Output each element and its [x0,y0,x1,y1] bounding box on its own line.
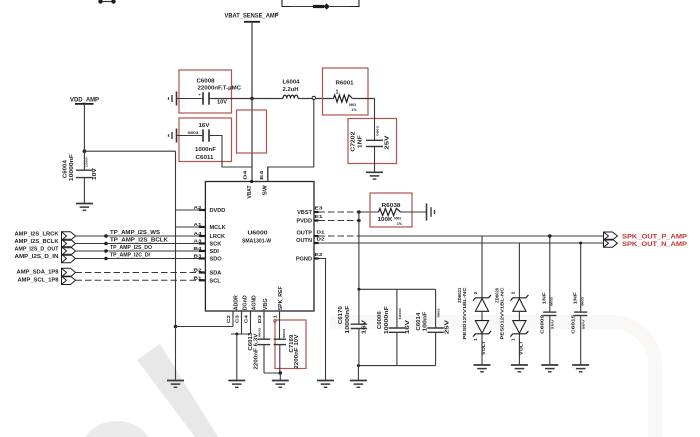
pin B3 SDO [199,257,206,259]
svg-text:VBG: VBG [263,298,269,310]
svg-text:0603: 0603 [375,125,379,136]
svg-text:PESD12VV1BL-NC: PESD12VV1BL-NC [462,287,467,340]
svg-text:16V: 16V [362,319,368,334]
junction [357,219,361,223]
ground [272,380,289,382]
pin A1 MCLK [199,226,206,228]
svg-text:22000nF,T-µMC: 22000nF,T-µMC [198,86,242,92]
capacitor C6011 box [179,118,232,162]
svg-text:TP_AMP_I2S_DO: TP_AMP_I2S_DO [110,245,152,251]
junction [357,210,361,214]
capacitor C6008 box [179,70,232,113]
testpoint TP_AMP_I2S_DO [104,249,108,253]
wire SW net [268,100,314,182]
wire [329,6,349,8]
svg-text:2: 2 [511,291,516,294]
svg-text:1NF: 1NF [541,292,547,304]
svg-text:25V: 25V [445,319,451,334]
svg-text:1%: 1% [397,222,403,226]
wire to ground [175,327,177,381]
svg-text:E4: E4 [259,170,265,179]
pin C1 [279,311,281,319]
svg-text:2: 2 [473,291,478,294]
pin D4 VBAT [250,180,253,183]
svg-text:25V: 25V [385,135,391,150]
svg-text:ADDR: ADDR [234,295,240,310]
connector bracket right [349,0,359,7]
capacitor C7202 [366,139,383,141]
svg-text:C6015: C6015 [571,314,577,333]
svg-text:PGND: PGND [296,256,312,262]
capacitor C6014 [435,289,437,328]
wire OUTP dashed [319,235,359,237]
junction [548,234,552,238]
svg-text:C1: C1 [273,315,279,323]
svg-text:SPK_OUT_P_AMP: SPK_OUT_P_AMP [622,234,688,241]
svg-text:110000: 110000 [398,308,402,320]
node ADDR junction [174,325,178,329]
svg-text:DGnD: DGnD [243,295,249,310]
wire [290,6,313,8]
wire [76,250,199,252]
pin E3 VBST [314,211,319,213]
wire OUTP [359,235,604,237]
wire [177,135,204,137]
svg-text:1000nF: 1000nF [195,147,216,153]
pin C3 [241,311,243,319]
connector bracket left [282,0,290,7]
pin E4 SW [267,167,269,182]
pin B1 SCL [199,279,206,281]
wire [374,99,376,141]
svg-text:25V: 25V [551,319,555,329]
svg-text:1: 1 [511,338,516,341]
resistor R6038 box [370,193,412,227]
net stub bar [75,103,94,105]
junction [579,242,582,245]
svg-text:SW: SW [262,184,268,195]
capacitor C6008 [202,92,204,104]
wire VDD_AMP to DVDD [84,150,175,152]
junction [250,97,254,101]
wire C6011 to VBAT [209,136,252,168]
svg-text:E1: E1 [315,214,323,220]
wire [76,235,199,237]
svg-text:VBST: VBST [297,210,313,216]
svg-text:C6008: C6008 [197,78,216,84]
svg-text:C6170: C6170 [338,306,344,324]
wire [357,366,359,381]
svg-text:LRCK: LRCK [210,234,226,240]
svg-text:PVDD: PVDD [296,218,312,224]
pin D3 [263,311,265,319]
svg-text:10V: 10V [92,167,98,180]
pin B2 SDA [199,271,206,273]
wire DGnD AGND [241,319,243,334]
wire [76,243,199,245]
svg-text:10000nF: 10000nF [69,154,75,181]
pin D2 OUTN [314,242,319,244]
wire VBAT rail [209,98,283,100]
capacitor C7202 box [348,119,397,164]
svg-text:AMP_I2S_D_IN: AMP_I2S_D_IN [15,254,59,260]
net stub bar [244,21,260,23]
svg-text:C2: C2 [226,315,232,323]
svg-text:OUTN: OUTN [296,238,312,244]
port SPK_OUT_P_AMP [604,232,618,240]
svg-text:R6001: R6001 [336,80,355,86]
svg-text:TP_AMP_I2S_WS: TP_AMP_I2S_WS [110,230,160,236]
ground [511,364,528,366]
svg-text:C6014: C6014 [416,312,422,330]
svg-text:D2: D2 [317,236,325,242]
wire VDD_AMP down [83,104,85,151]
svg-text:10V: 10V [217,99,227,105]
svg-text:VDD_AMP: VDD_AMP [70,97,99,104]
op-amp U1 IC U6000 body [205,182,314,312]
svg-text:10000nF: 10000nF [384,306,390,334]
svg-text:0603: 0603 [436,308,440,318]
wire MCLK [176,226,199,228]
diode ZD6021 [481,236,483,298]
svg-text:C4: C4 [244,315,250,323]
ground rotated [426,204,428,221]
svg-text:1%: 1% [351,108,357,112]
svg-text:VBAT_SENSE_AMP: VBAT_SENSE_AMP [225,12,279,19]
pin B4 SDI [199,250,206,252]
svg-text:SMA1301-W: SMA1301-W [242,238,271,244]
svg-text:1NF: 1NF [572,292,578,304]
svg-text:C6009: C6009 [540,314,546,333]
testpoint TP_AMP_I2S_WS [104,234,108,238]
wire [353,98,375,100]
ground [350,380,367,382]
wire SDA dashed [76,272,199,274]
svg-text:AMP_I2S_BCLK: AMP_I2S_BCLK [15,239,59,245]
watermark diagonal bar [137,344,218,437]
testpoint TP_AMP_I2S_BCLK [104,242,108,246]
svg-text:SCL: SCL [210,278,222,284]
svg-text:2200nF 6.3V: 2200nF 6.3V [253,333,259,370]
wire ADDR [176,326,234,328]
wire cap bank bottom rail [358,365,435,367]
testpoint TP_AMP_I2C_DI [104,257,108,261]
ground [167,380,184,382]
svg-text:2.2uH: 2.2uH [283,87,299,93]
ground [541,364,558,366]
pin D1 OUTP [314,235,319,237]
wire PVDD dashed [319,220,359,222]
pin A3 SCK [199,242,206,244]
ground [317,380,334,382]
capacitor C6006 [396,289,398,328]
wire SCL dashed [76,279,199,281]
svg-text:SDO: SDO [210,257,223,263]
svg-text:1NF: 1NF [358,135,364,148]
ground [572,364,589,366]
wire [316,98,334,100]
svg-text:PESD12VV1BL-NC: PESD12VV1BL-NC [499,287,504,340]
capacitor C7169 [279,319,281,339]
ground [176,92,178,106]
svg-text:D3: D3 [257,315,263,323]
ground [76,203,93,205]
capacitor C6013 [263,319,265,339]
pin A4 LRCK [199,235,206,237]
svg-text:MCLK: MCLK [210,225,226,231]
wire [298,98,312,100]
wire OUTN [319,242,604,244]
ground [474,364,491,366]
wire PGND [319,259,326,381]
pin C4 [250,311,252,319]
svg-text:D4: D4 [243,170,249,179]
capacitor C6015 [580,243,582,312]
diode ZD6020 [518,243,520,298]
pin C2 [232,311,234,319]
svg-text:AMP_SDA_1P8: AMP_SDA_1P8 [17,270,59,276]
svg-text:TP_AMP_I2S_BCLK: TP_AMP_I2S_BCLK [110,237,168,243]
svg-text:AMP_I2S_D_OUT: AMP_I2S_D_OUT [15,246,60,252]
svg-text:SPK_OUT_N_AMP: SPK_OUT_N_AMP [622,241,688,248]
svg-text:TP_AMP_I2C_DI: TP_AMP_I2C_DI [110,252,150,258]
pin A2 DVDD [199,209,206,211]
svg-text:100nF: 100nF [422,312,428,332]
svg-text:0603: 0603 [188,131,199,135]
svg-text:L6004: L6004 [283,79,301,85]
svg-text:SDI: SDI [210,249,220,255]
watermark rounded band right [330,322,655,437]
svg-text:C6006: C6006 [377,311,383,329]
wire [401,211,427,213]
pin E2 PGND [314,257,319,259]
capacitor C6009 [549,236,551,312]
svg-text:AMP_SCL_1P8: AMP_SCL_1P8 [18,278,59,284]
watermark ellipse bottom-left [83,421,151,437]
svg-text:2200nF 10V: 2200nF 10V [294,334,300,369]
svg-text:110000: 110000 [84,157,88,167]
wire PVDD down [358,212,360,289]
wire [359,211,379,213]
svg-text:U6000: U6000 [248,231,268,237]
ground [176,129,178,143]
ground [366,171,383,173]
svg-text:SPK_REF: SPK_REF [278,286,284,311]
resistor R6001 box [323,68,369,115]
wire DVDD [176,209,199,211]
wire [76,258,199,260]
svg-text:E3: E3 [315,205,323,211]
svg-text:C7202: C7202 [351,131,357,151]
svg-text:C3: C3 [235,315,241,323]
node open junction [312,96,315,99]
wire cap bank top rail [359,288,436,290]
svg-text:16V: 16V [405,319,411,334]
svg-text:SCK: SCK [210,242,222,248]
wire [177,98,204,100]
svg-text:VBAT: VBAT [247,185,253,199]
svg-text:0603: 0603 [581,296,585,306]
svg-text:0603: 0603 [550,296,554,306]
capacitor C6170 [358,289,360,324]
svg-text:VOLT: VOLT [519,341,524,355]
svg-text:E2: E2 [315,252,323,258]
svg-text:16V: 16V [199,123,210,129]
capacitor C7169 box [275,320,306,369]
svg-text:50V: 50V [582,319,586,329]
highlight box [237,110,267,153]
capacitor C6004 [83,151,85,170]
svg-text:DVDD: DVDD [210,208,226,214]
svg-text:VOLT: VOLT [481,341,486,355]
svg-text:OUTP: OUTP [296,231,312,237]
capacitor C6011 [202,129,204,141]
svg-text:1: 1 [336,89,339,95]
wire VBAT sense vertical [251,22,253,182]
svg-text:C6011: C6011 [196,155,215,161]
svg-text:SDA: SDA [210,271,222,277]
svg-text:100K: 100K [378,217,393,223]
svg-text:10000nF: 10000nF [345,306,351,334]
wire VBST dashed [319,211,359,213]
svg-text:D1: D1 [317,229,325,235]
shunt FL bar [313,5,324,8]
svg-text:AMP_I2S_LRCK: AMP_I2S_LRCK [15,231,59,237]
junction [83,149,87,153]
gray mark [276,13,279,16]
svg-text:0603: 0603 [394,217,401,221]
svg-text:0603: 0603 [349,103,356,107]
top partial link [100,1,114,3]
svg-text:1: 1 [473,338,478,341]
svg-text:C6004: C6004 [63,160,69,178]
pin E1 PVDD [314,219,319,221]
ground [228,380,245,382]
svg-text:AGND: AGND [252,295,258,310]
svg-text:0603: 0603 [282,328,286,338]
port SPK_OUT_N_AMP [604,239,618,247]
